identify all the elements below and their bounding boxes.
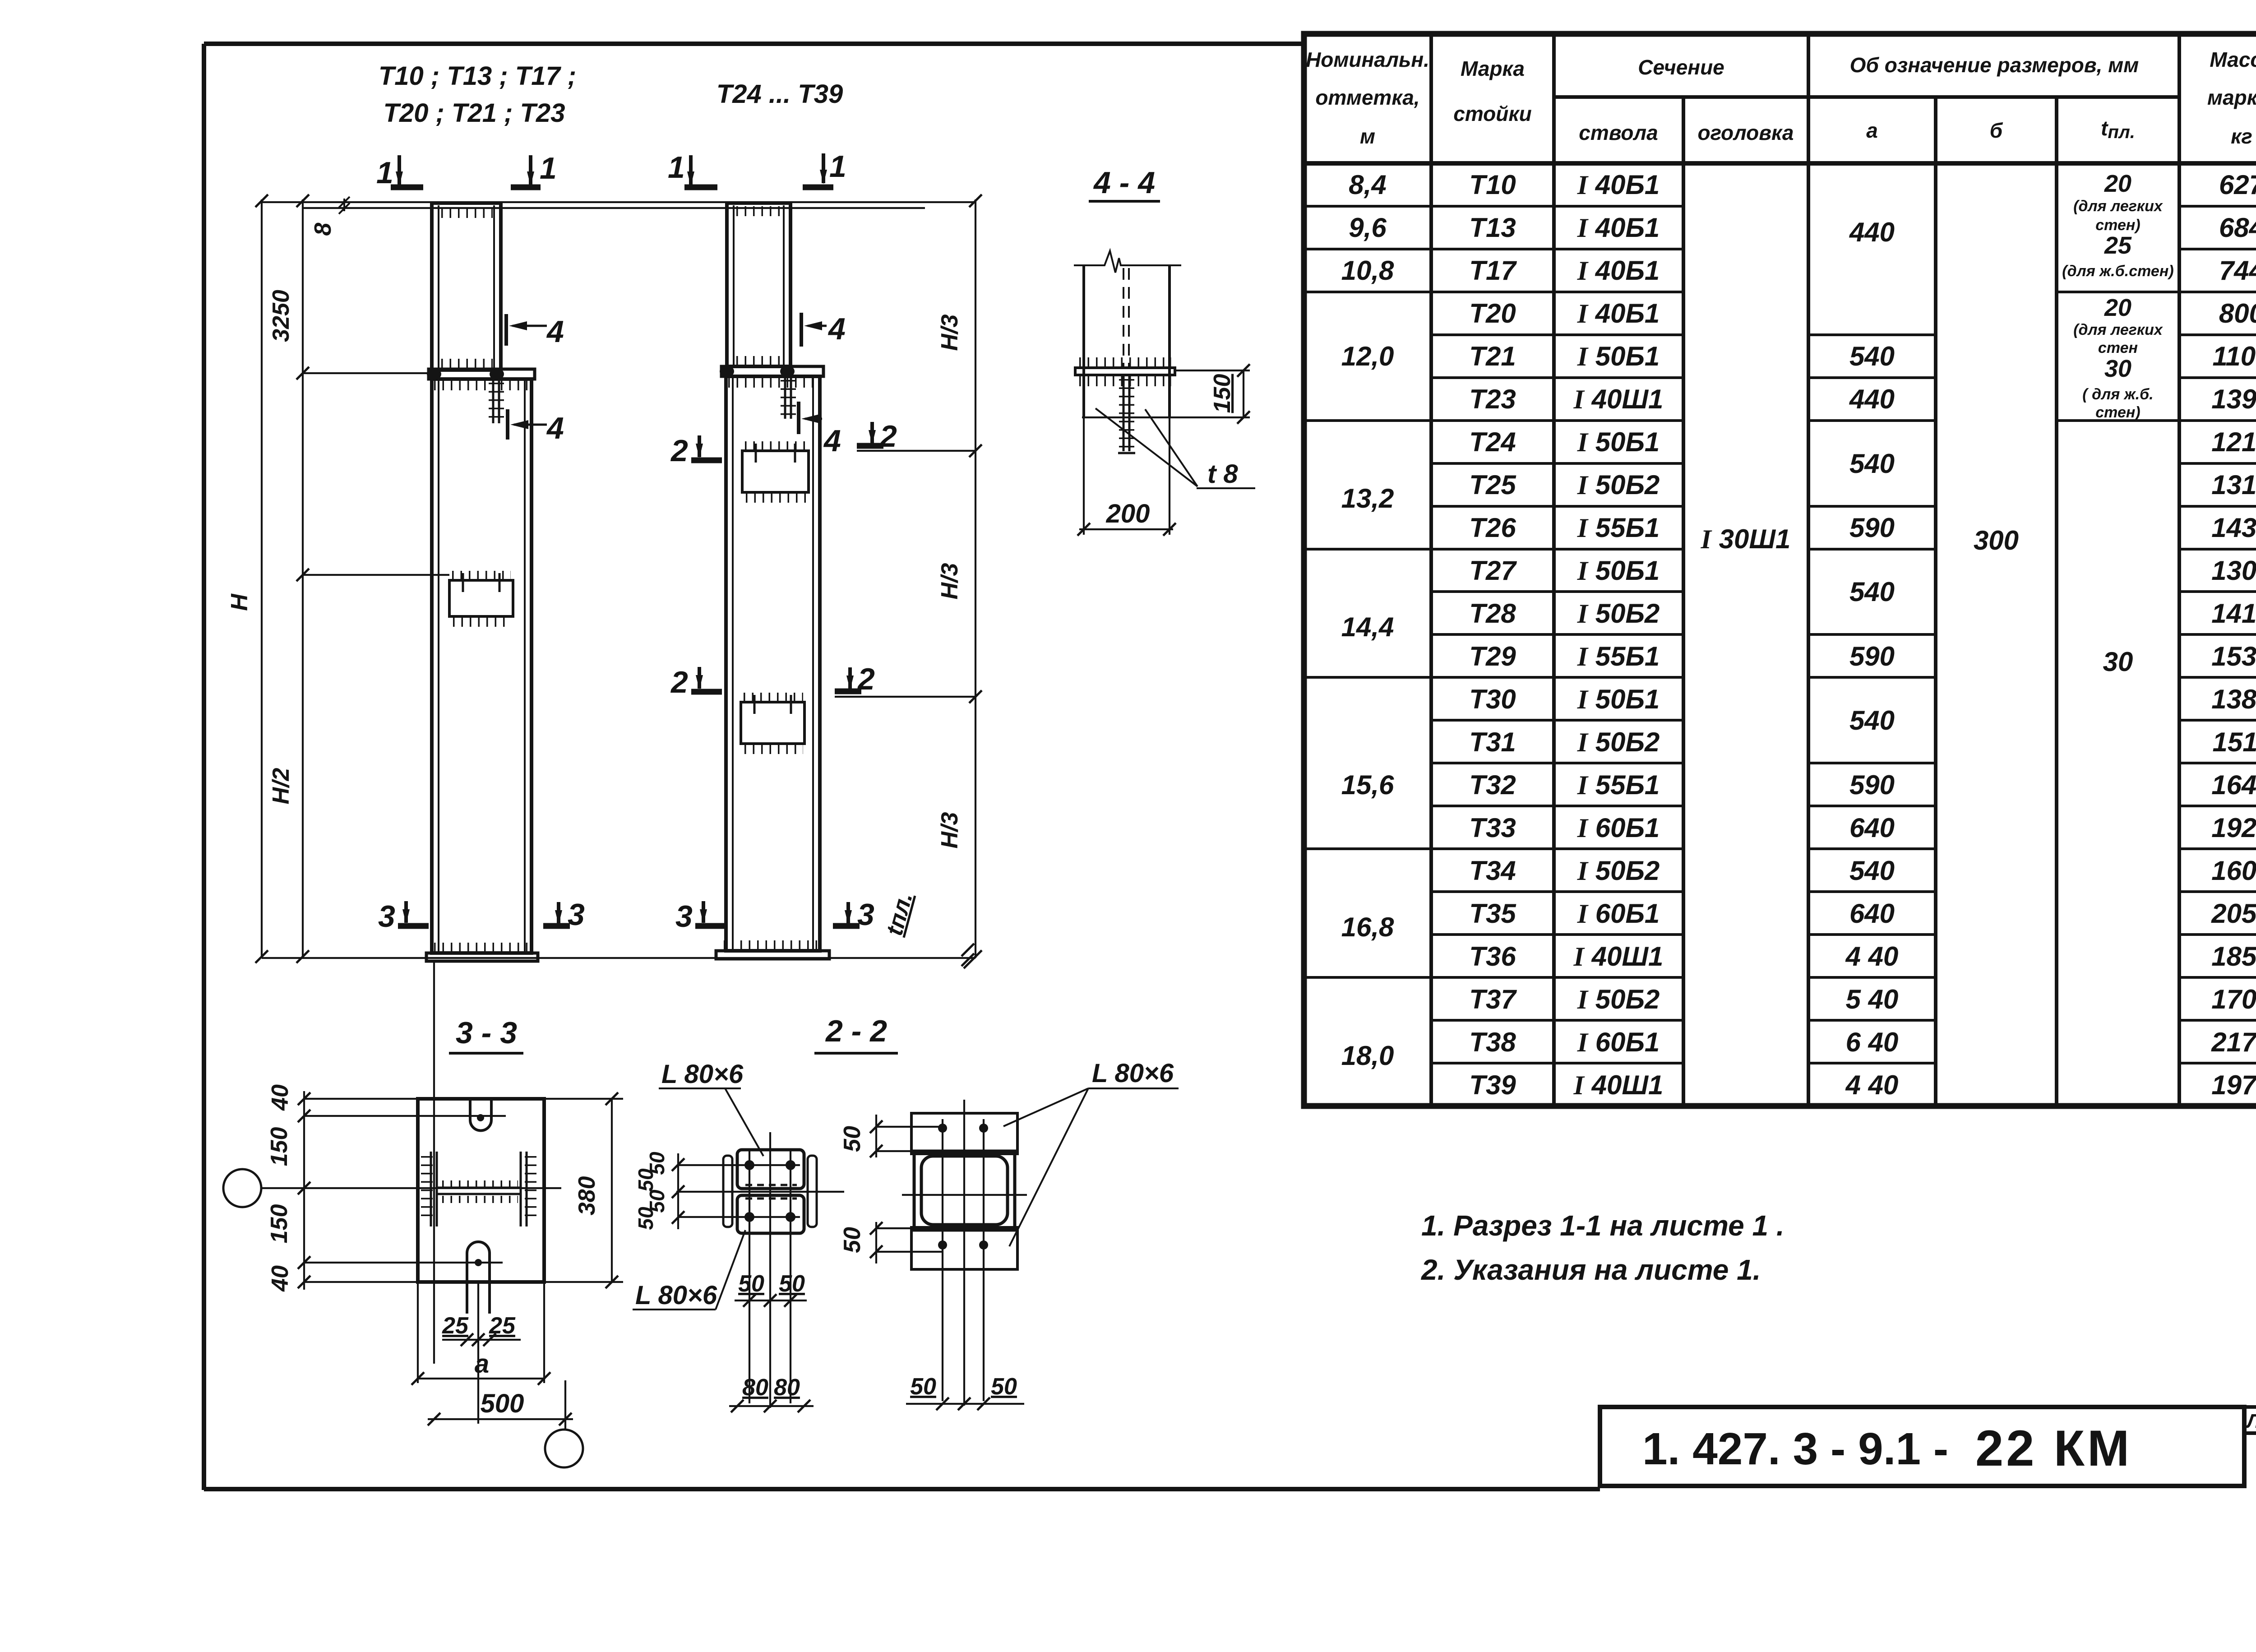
svg-text:Номинальн.: Номинальн. bbox=[1306, 48, 1429, 71]
svg-text:1703: 1703 bbox=[2211, 984, 2256, 1014]
svg-text:Т20: Т20 bbox=[1469, 298, 1516, 329]
svg-text:оголовка: оголовка bbox=[1698, 121, 1794, 144]
svg-text:20: 20 bbox=[2104, 170, 2131, 197]
section 3-3 right dim 380 bbox=[611, 1099, 613, 1282]
svg-text:540: 540 bbox=[1849, 449, 1895, 479]
svg-text:H/3: H/3 bbox=[937, 812, 963, 848]
svg-text:Сечение: Сечение bbox=[1638, 56, 1724, 79]
svg-text:20: 20 bbox=[2104, 294, 2131, 321]
svg-text:I 50Б2: I 50Б2 bbox=[1577, 856, 1660, 886]
svg-text:80: 80 bbox=[774, 1374, 800, 1401]
svg-text:4: 4 bbox=[546, 411, 564, 445]
section 2-2 left: bolts bbox=[744, 1160, 754, 1170]
svg-text:25: 25 bbox=[2104, 232, 2132, 259]
svg-text:744: 744 bbox=[2219, 255, 2256, 286]
svg-text:50: 50 bbox=[839, 1126, 865, 1152]
svg-text:Т33: Т33 bbox=[1469, 813, 1516, 843]
svg-text:Т10 ; Т13 ; Т17 ;: Т10 ; Т13 ; Т17 ; bbox=[379, 61, 576, 91]
svg-text:I 40Б1: I 40Б1 bbox=[1577, 255, 1660, 286]
column 1 upper shaft bbox=[432, 203, 501, 370]
svg-text:200: 200 bbox=[1106, 499, 1150, 528]
svg-text:I 30Ш1: I 30Ш1 bbox=[1701, 524, 1791, 554]
svg-text:22 КМ: 22 КМ bbox=[1975, 1420, 2132, 1476]
svg-text:540: 540 bbox=[1849, 705, 1895, 736]
svg-text:I 50Б2: I 50Б2 bbox=[1577, 598, 1660, 629]
svg-text:I 40Ш1: I 40Ш1 bbox=[1573, 941, 1664, 972]
svg-text:Т38: Т38 bbox=[1469, 1027, 1516, 1057]
dim 150 bbox=[1243, 370, 1244, 417]
svg-text:L 80×6: L 80×6 bbox=[635, 1281, 717, 1310]
svg-text:1511: 1511 bbox=[2212, 727, 2256, 757]
section 4-4 cap plate bbox=[1075, 368, 1175, 375]
svg-text:1648: 1648 bbox=[2211, 770, 2256, 800]
dim 200 bbox=[1079, 417, 1173, 535]
svg-text:1301: 1301 bbox=[2211, 555, 2256, 586]
svg-text:1432: 1432 bbox=[2211, 513, 2256, 543]
svg-text:Т27: Т27 bbox=[1469, 555, 1517, 586]
table header lines bbox=[1554, 95, 2179, 99]
section 4-4 cap level extension bbox=[1175, 370, 1250, 371]
svg-text:12,0: 12,0 bbox=[1341, 341, 1394, 371]
svg-text:(для легких: (для легких bbox=[2073, 321, 2164, 338]
section mark 1 (left of col1) bbox=[376, 155, 423, 190]
section mark 2 left upper bbox=[670, 434, 722, 468]
svg-text:а: а bbox=[1866, 119, 1878, 142]
svg-text:50: 50 bbox=[634, 1168, 657, 1192]
section 2-2 right: weld dashes bbox=[920, 1152, 1011, 1228]
section 3-3 axis circle left bbox=[223, 1169, 261, 1207]
svg-text:Т10: Т10 bbox=[1469, 170, 1516, 200]
svg-text:30: 30 bbox=[2104, 355, 2131, 382]
label t8 with leaders bbox=[1096, 408, 1255, 488]
section mark 3 third bbox=[675, 899, 726, 934]
svg-text:I 55Б1: I 55Б1 bbox=[1577, 513, 1660, 543]
svg-text:2. Указания на листе 1.: 2. Указания на листе 1. bbox=[1421, 1254, 1761, 1286]
section mark 4 col2 upper bbox=[801, 312, 846, 347]
svg-text:Т30: Т30 bbox=[1469, 684, 1516, 714]
svg-text:300: 300 bbox=[1974, 525, 2019, 555]
section 2-2 left: top channel plate bbox=[737, 1150, 804, 1189]
svg-text:1391: 1391 bbox=[2211, 384, 2256, 414]
svg-text:Т25: Т25 bbox=[1469, 470, 1516, 500]
section 3-3 dim a bbox=[418, 1282, 544, 1383]
svg-text:2: 2 bbox=[879, 419, 897, 453]
column 2 splice plate lower bbox=[741, 702, 804, 744]
svg-text:б: б bbox=[1990, 119, 2003, 142]
svg-text:Марка: Марка bbox=[1461, 57, 1525, 80]
svg-text:50: 50 bbox=[738, 1271, 764, 1297]
svg-text:H/3: H/3 bbox=[937, 563, 963, 599]
svg-text:540: 540 bbox=[1849, 341, 1895, 371]
svg-text:1316: 1316 bbox=[2211, 470, 2256, 500]
svg-text:кг: кг bbox=[2231, 125, 2252, 148]
top reference line 1-1 bbox=[262, 202, 975, 208]
column 1 splice plate bbox=[449, 580, 513, 616]
section 3-3 extension lines bbox=[262, 1099, 623, 1282]
svg-text:I 55Б1: I 55Б1 bbox=[1577, 641, 1660, 671]
svg-text:Об означение размеров, мм: Об означение размеров, мм bbox=[1850, 53, 2139, 77]
svg-text:I 40Б1: I 40Б1 bbox=[1577, 298, 1660, 329]
svg-text:1. 427. 3 - 9.1 -: 1. 427. 3 - 9.1 - bbox=[1642, 1424, 1948, 1474]
section 2-2 left: dim chain 50x4 bbox=[677, 1153, 679, 1229]
svg-text:3250: 3250 bbox=[268, 290, 294, 342]
svg-text:Т32: Т32 bbox=[1469, 770, 1516, 800]
svg-text:15,6: 15,6 bbox=[1341, 770, 1394, 800]
svg-text:3: 3 bbox=[857, 898, 874, 932]
svg-text:Т31: Т31 bbox=[1469, 727, 1516, 757]
svg-text:40: 40 bbox=[267, 1084, 293, 1111]
svg-text:I 50Б1: I 50Б1 bbox=[1577, 341, 1660, 371]
svg-text:30: 30 bbox=[2103, 647, 2133, 677]
svg-text:13,2: 13,2 bbox=[1341, 483, 1394, 514]
svg-text:8: 8 bbox=[310, 222, 336, 236]
svg-text:ствола: ствола bbox=[1579, 121, 1658, 144]
svg-text:марки,: марки, bbox=[2207, 86, 2256, 109]
svg-text:800: 800 bbox=[2219, 298, 2256, 329]
svg-text:684: 684 bbox=[2219, 213, 2256, 243]
svg-text:I 50Б2: I 50Б2 bbox=[1577, 727, 1660, 757]
svg-text:Т21: Т21 bbox=[1469, 341, 1516, 371]
svg-text:Т13: Т13 bbox=[1469, 213, 1516, 243]
extension line 3250 bottom bbox=[303, 372, 430, 374]
projection line col1 to section 3-3 bbox=[433, 961, 435, 1364]
column 2 upper shaft bbox=[727, 203, 791, 366]
section mark 3 fourth bbox=[833, 898, 874, 932]
svg-text:150: 150 bbox=[266, 1127, 292, 1166]
section mark 4 col2 lower bbox=[799, 402, 841, 458]
svg-text:1. Разрез 1-1 на листе 1 .: 1. Разрез 1-1 на листе 1 . bbox=[1421, 1209, 1784, 1242]
svg-text:540: 540 bbox=[1849, 577, 1895, 607]
svg-text:Т24: Т24 bbox=[1469, 427, 1516, 457]
svg-text:9,6: 9,6 bbox=[1349, 213, 1387, 243]
dim line 3250 / H/2 (inner left) bbox=[302, 199, 304, 958]
svg-text:4: 4 bbox=[823, 424, 841, 458]
section 3-3 left dim chain 40/150/150/40 bbox=[303, 1091, 305, 1290]
svg-text:540: 540 bbox=[1849, 856, 1895, 886]
svg-text:8,4: 8,4 bbox=[1349, 170, 1386, 200]
svg-text:Т39: Т39 bbox=[1469, 1070, 1516, 1100]
section 2-2 left: side angle legs bbox=[723, 1156, 732, 1227]
section 2-2 right: bolt lines bbox=[943, 1119, 984, 1401]
section 3-3 I-beam web bbox=[437, 1188, 521, 1194]
section 2-2 left: channel lip dashes bbox=[745, 1185, 797, 1199]
section 2-2 right: centerlines bbox=[902, 1100, 1027, 1406]
svg-text:I 50Б2: I 50Б2 bbox=[1577, 984, 1660, 1014]
svg-text:14,4: 14,4 bbox=[1341, 612, 1394, 642]
svg-text:I 50Б1: I 50Б1 bbox=[1577, 427, 1660, 457]
svg-text:I 60Б1: I 60Б1 bbox=[1577, 813, 1660, 843]
table column lines bbox=[1431, 34, 2179, 1106]
dim line H (outer left) bbox=[261, 199, 263, 958]
section mark 4 col1 lower bbox=[508, 409, 564, 445]
svg-text:50: 50 bbox=[991, 1374, 1017, 1400]
section 4-4 column walls bbox=[1084, 265, 1170, 417]
section 4-4 top edge with break bbox=[1074, 251, 1181, 273]
section mark 2 right upper bbox=[857, 419, 897, 453]
svg-text:I 40Ш1: I 40Ш1 bbox=[1573, 1070, 1664, 1100]
svg-text:H: H bbox=[227, 593, 253, 611]
section 2-2 right: box outer bbox=[914, 1151, 1015, 1230]
svg-text:50: 50 bbox=[910, 1374, 936, 1400]
base level line bbox=[262, 957, 975, 959]
svg-text:Т26: Т26 bbox=[1469, 513, 1516, 543]
section mark 1 (right of col1) bbox=[511, 151, 557, 187]
svg-text:I 60Б1: I 60Б1 bbox=[1577, 1027, 1660, 1057]
column 1 base plate bbox=[426, 953, 538, 961]
section 2-2 right: top flange plate bbox=[911, 1113, 1017, 1154]
svg-text:Т29: Т29 bbox=[1469, 641, 1516, 671]
svg-text:440: 440 bbox=[1849, 384, 1895, 414]
svg-text:2: 2 bbox=[670, 665, 688, 699]
svg-text:40: 40 bbox=[267, 1265, 293, 1292]
column 1 lower shaft bbox=[432, 379, 532, 953]
section 3-3 axis circle bottom bbox=[564, 1380, 566, 1430]
svg-text:2: 2 bbox=[670, 434, 688, 468]
svg-text:I 40Ш1: I 40Ш1 bbox=[1573, 384, 1664, 414]
section 2-2 left: dim 50/50 bottom bbox=[735, 1300, 807, 1301]
svg-text:м: м bbox=[1360, 125, 1375, 148]
svg-text:50: 50 bbox=[839, 1227, 865, 1253]
section 2-2 left: centerlines bbox=[676, 1132, 844, 1408]
svg-text:380: 380 bbox=[574, 1176, 600, 1216]
svg-text:Т36: Т36 bbox=[1469, 941, 1516, 972]
section 3-3 base plate outline bbox=[418, 1099, 544, 1282]
section 2-2 left: dim 80/80 bottom bbox=[729, 1405, 814, 1407]
svg-text:5 40: 5 40 bbox=[1846, 984, 1899, 1014]
svg-text:25: 25 bbox=[442, 1313, 469, 1339]
section 4-4 bottom line bbox=[1082, 416, 1250, 418]
svg-text:стен: стен bbox=[2098, 339, 2138, 356]
svg-text:4 40: 4 40 bbox=[1845, 1070, 1899, 1100]
table row lines bbox=[1304, 206, 2256, 1063]
svg-text:I 40Б1: I 40Б1 bbox=[1577, 213, 1660, 243]
section 2-2 right: left dims 50 top/bottom bbox=[876, 1115, 943, 1263]
column 2 splice plate upper bbox=[742, 451, 809, 492]
svg-text:Т37: Т37 bbox=[1469, 984, 1517, 1014]
svg-text:1855: 1855 bbox=[2211, 941, 2256, 972]
svg-text:(для ж.б.стен): (для ж.б.стен) bbox=[2062, 263, 2173, 280]
svg-text:I 40Б1: I 40Б1 bbox=[1577, 170, 1660, 200]
svg-text:590: 590 bbox=[1849, 513, 1895, 543]
svg-text:2: 2 bbox=[857, 662, 875, 696]
svg-text:500: 500 bbox=[481, 1389, 524, 1418]
section mark 2 right lower bbox=[835, 662, 875, 696]
column 2 cap plate bbox=[721, 366, 823, 376]
svg-text:Т23: Т23 bbox=[1469, 384, 1516, 414]
section 2-2 right: bolts bbox=[938, 1124, 947, 1133]
svg-text:L 80×6: L 80×6 bbox=[661, 1060, 744, 1089]
svg-text:590: 590 bbox=[1849, 770, 1895, 800]
svg-text:2175: 2175 bbox=[2211, 1027, 2256, 1057]
svg-text:H/2: H/2 bbox=[268, 768, 294, 804]
title block sheet cell bbox=[2244, 1407, 2256, 1486]
svg-text:I 50Б1: I 50Б1 bbox=[1577, 555, 1660, 586]
svg-text:640: 640 bbox=[1849, 898, 1895, 929]
svg-text:( для ж.б.: ( для ж.б. bbox=[2082, 386, 2153, 403]
svg-text:590: 590 bbox=[1849, 641, 1895, 671]
svg-text:1607: 1607 bbox=[2211, 856, 2256, 886]
section mark 4 col1 upper bbox=[506, 314, 564, 349]
svg-text:1218: 1218 bbox=[2211, 427, 2256, 457]
svg-text:стен): стен) bbox=[2095, 217, 2140, 234]
dim line H/3 (right) bbox=[975, 199, 976, 958]
svg-text:стойки: стойки bbox=[1453, 102, 1532, 125]
svg-text:1108: 1108 bbox=[2212, 341, 2256, 371]
svg-text:150: 150 bbox=[266, 1204, 292, 1244]
svg-text:Т24 ... Т39: Т24 ... Т39 bbox=[717, 79, 843, 109]
svg-text:I 60Б1: I 60Б1 bbox=[1577, 898, 1660, 929]
svg-text:80: 80 bbox=[742, 1374, 768, 1401]
svg-text:I 55Б1: I 55Б1 bbox=[1577, 770, 1660, 800]
svg-text:25: 25 bbox=[489, 1313, 516, 1339]
svg-text:18,0: 18,0 bbox=[1341, 1041, 1394, 1071]
column 2 base plate bbox=[716, 951, 829, 959]
svg-text:1: 1 bbox=[668, 150, 685, 185]
svg-text:1920: 1920 bbox=[2211, 813, 2256, 843]
section 2-2 left: bottom channel plate bbox=[737, 1195, 804, 1233]
table outer border bbox=[1304, 34, 2256, 1106]
svg-text:2 - 2: 2 - 2 bbox=[825, 1014, 887, 1048]
svg-text:4: 4 bbox=[546, 315, 564, 349]
svg-text:640: 640 bbox=[1849, 813, 1895, 843]
section 3-3 top anchor slot bbox=[470, 1099, 491, 1131]
svg-text:а: а bbox=[475, 1349, 489, 1379]
section mark 2 left lower bbox=[670, 665, 722, 699]
section 3-3 bottom anchor slot bbox=[467, 1242, 490, 1314]
svg-text:1: 1 bbox=[829, 149, 846, 184]
svg-text:1: 1 bbox=[540, 151, 557, 185]
column 2 lower shaft bbox=[726, 376, 820, 951]
H/3 division lines bbox=[835, 451, 975, 697]
dim 8 ticks and label bbox=[339, 197, 350, 214]
section 4-4 hidden web dashed bbox=[1123, 268, 1129, 368]
svg-text:6 40: 6 40 bbox=[1846, 1027, 1899, 1057]
section mark 1 (left of col2) bbox=[668, 150, 717, 187]
svg-text:4: 4 bbox=[828, 312, 846, 346]
section 2-2 right: bottom flange plate bbox=[911, 1227, 1017, 1269]
svg-text:3: 3 bbox=[568, 898, 585, 932]
svg-text:Т34: Т34 bbox=[1469, 856, 1516, 886]
section 3-3 I-beam flanges bbox=[431, 1152, 527, 1226]
title block box bbox=[1600, 1407, 2244, 1486]
section 3-3 dim 25/25 bbox=[442, 1282, 521, 1424]
svg-text:4 - 4: 4 - 4 bbox=[1093, 166, 1155, 200]
column 1 cap plate bbox=[429, 369, 535, 379]
svg-text:Т20 ; Т21 ; Т23: Т20 ; Т21 ; Т23 bbox=[384, 98, 565, 128]
svg-text:1389: 1389 bbox=[2211, 684, 2256, 714]
section mark 3 second bbox=[543, 898, 585, 932]
svg-text:10,8: 10,8 bbox=[1341, 255, 1394, 286]
svg-text:L 80×6: L 80×6 bbox=[1092, 1059, 1174, 1088]
svg-text:3: 3 bbox=[378, 899, 395, 934]
section mark 3 first bbox=[378, 899, 429, 934]
column 2 cap weld stub bbox=[785, 376, 791, 419]
svg-text:1970: 1970 bbox=[2211, 1070, 2256, 1100]
border frame bbox=[204, 44, 2256, 1490]
svg-text:I 50Б2: I 50Б2 bbox=[1577, 470, 1660, 500]
section mark 1 (right of col2) bbox=[803, 149, 846, 187]
section 2-2 left: bolt lines bbox=[749, 1150, 791, 1403]
svg-text:50: 50 bbox=[634, 1207, 657, 1230]
svg-text:3: 3 bbox=[675, 899, 693, 934]
svg-text:H/3: H/3 bbox=[937, 314, 963, 351]
svg-text:1539: 1539 bbox=[2211, 641, 2256, 671]
svg-text:3 - 3: 3 - 3 bbox=[456, 1016, 517, 1050]
section 2-2 right: box inner rounded bbox=[921, 1156, 1008, 1225]
svg-text:(для легких: (для легких bbox=[2073, 198, 2164, 215]
svg-text:150: 150 bbox=[1209, 374, 1235, 413]
svg-text:2050: 2050 bbox=[2211, 898, 2256, 929]
svg-text:627: 627 bbox=[2219, 170, 2256, 200]
svg-text:440: 440 bbox=[1849, 217, 1895, 247]
section 4-4 stub plate t8 bbox=[1123, 375, 1129, 451]
svg-text:16,8: 16,8 bbox=[1341, 912, 1394, 942]
svg-text:50: 50 bbox=[779, 1271, 805, 1297]
svg-text:I 50Б1: I 50Б1 bbox=[1577, 684, 1660, 714]
svg-text:Т17: Т17 bbox=[1469, 255, 1517, 286]
svg-text:t 8: t 8 bbox=[1207, 459, 1238, 489]
svg-text:стен): стен) bbox=[2095, 404, 2140, 421]
svg-text:4 40: 4 40 bbox=[1845, 941, 1899, 972]
extension line H/2 top bbox=[303, 574, 449, 576]
svg-text:Масса: Масса bbox=[2210, 48, 2256, 71]
svg-text:Т35: Т35 bbox=[1469, 898, 1516, 929]
svg-text:отметка,: отметка, bbox=[1315, 86, 1419, 109]
svg-text:Лист: Лист bbox=[2246, 1410, 2256, 1432]
section 3-3 dim 500 bbox=[428, 1418, 573, 1420]
section 2-2 left: bolt row lines bbox=[677, 1165, 800, 1217]
svg-text:Т28: Т28 bbox=[1469, 598, 1516, 629]
svg-text:1414: 1414 bbox=[2211, 598, 2256, 629]
column 1 cap weld stub bbox=[493, 379, 499, 423]
section 2-2 right: dim 50/50 bottom bbox=[906, 1403, 1024, 1405]
